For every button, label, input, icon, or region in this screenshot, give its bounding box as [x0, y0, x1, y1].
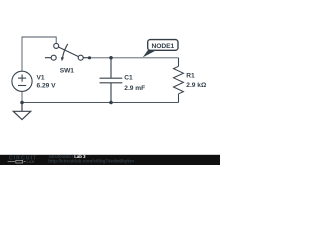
voltage source V1 [12, 71, 32, 91]
junction dot at SW1 pole pin [88, 56, 91, 59]
node NODE1 flag [143, 40, 178, 58]
ground [13, 103, 30, 120]
svg-text:C1: C1 [124, 75, 133, 82]
switch SW1 [45, 43, 90, 61]
SW1 throw terminal top [54, 43, 59, 48]
SW1 pole pin lead [83, 57, 89, 59]
resistor R1 [174, 58, 184, 103]
wire bottom rail (ground node to C1 and R1 bottoms) [22, 102, 179, 104]
wire top rail NODE1 net (SW1 pole to C1 and R1 tops) [90, 57, 179, 59]
wire V1 bottom to ground node [21, 91, 23, 102]
SW1 pole terminal [78, 55, 83, 60]
svg-text:6.29 V: 6.29 V [37, 83, 57, 90]
wire V1 top to SW1 throw (up, right, down) [22, 37, 56, 71]
svg-text:2.9 mF: 2.9 mF [124, 85, 145, 92]
svg-text:V1: V1 [37, 74, 45, 81]
SW1 open throw pin stub [45, 57, 51, 59]
svg-text:R1: R1 [186, 73, 195, 80]
junction dot at C1 bottom [109, 101, 113, 105]
svg-text:2.9 kΩ: 2.9 kΩ [186, 82, 207, 89]
junction dot at C1 top [109, 56, 113, 60]
svg-text:http://circuitlab.com/c/6bg74c: http://circuitlab.com/c/6bg74cdw9bykm [48, 158, 134, 163]
footer bar [0, 155, 220, 165]
SW1 blade [58, 47, 78, 57]
svg-text:SW1: SW1 [60, 67, 75, 74]
capacitor C1 [100, 58, 123, 103]
svg-text:NODE1: NODE1 [151, 43, 174, 50]
SW1 open throw terminal [51, 55, 56, 60]
CircuitLab logo [8, 156, 38, 165]
SW1 actuator arrow [63, 44, 68, 58]
junction dot at ground node [20, 101, 24, 105]
svg-text:LAB: LAB [27, 160, 35, 164]
